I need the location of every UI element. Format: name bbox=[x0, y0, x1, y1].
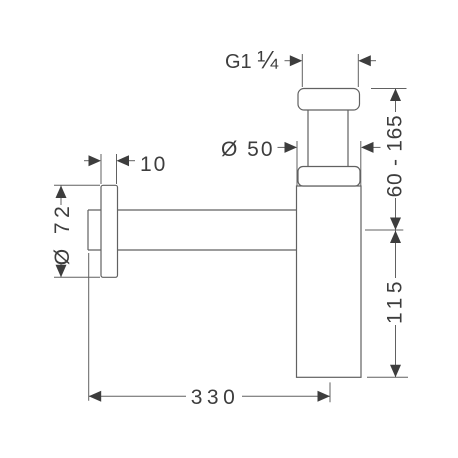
svg-text:10: 10 bbox=[140, 153, 167, 176]
svg-text:Ø 50: Ø 50 bbox=[221, 138, 275, 161]
svg-text:Ø 72: Ø 72 bbox=[51, 202, 74, 266]
svg-text:330: 330 bbox=[191, 386, 240, 409]
svg-text:G1 ¼: G1 ¼ bbox=[225, 47, 279, 75]
svg-text:60 - 165: 60 - 165 bbox=[384, 115, 407, 198]
svg-text:115: 115 bbox=[384, 277, 407, 324]
